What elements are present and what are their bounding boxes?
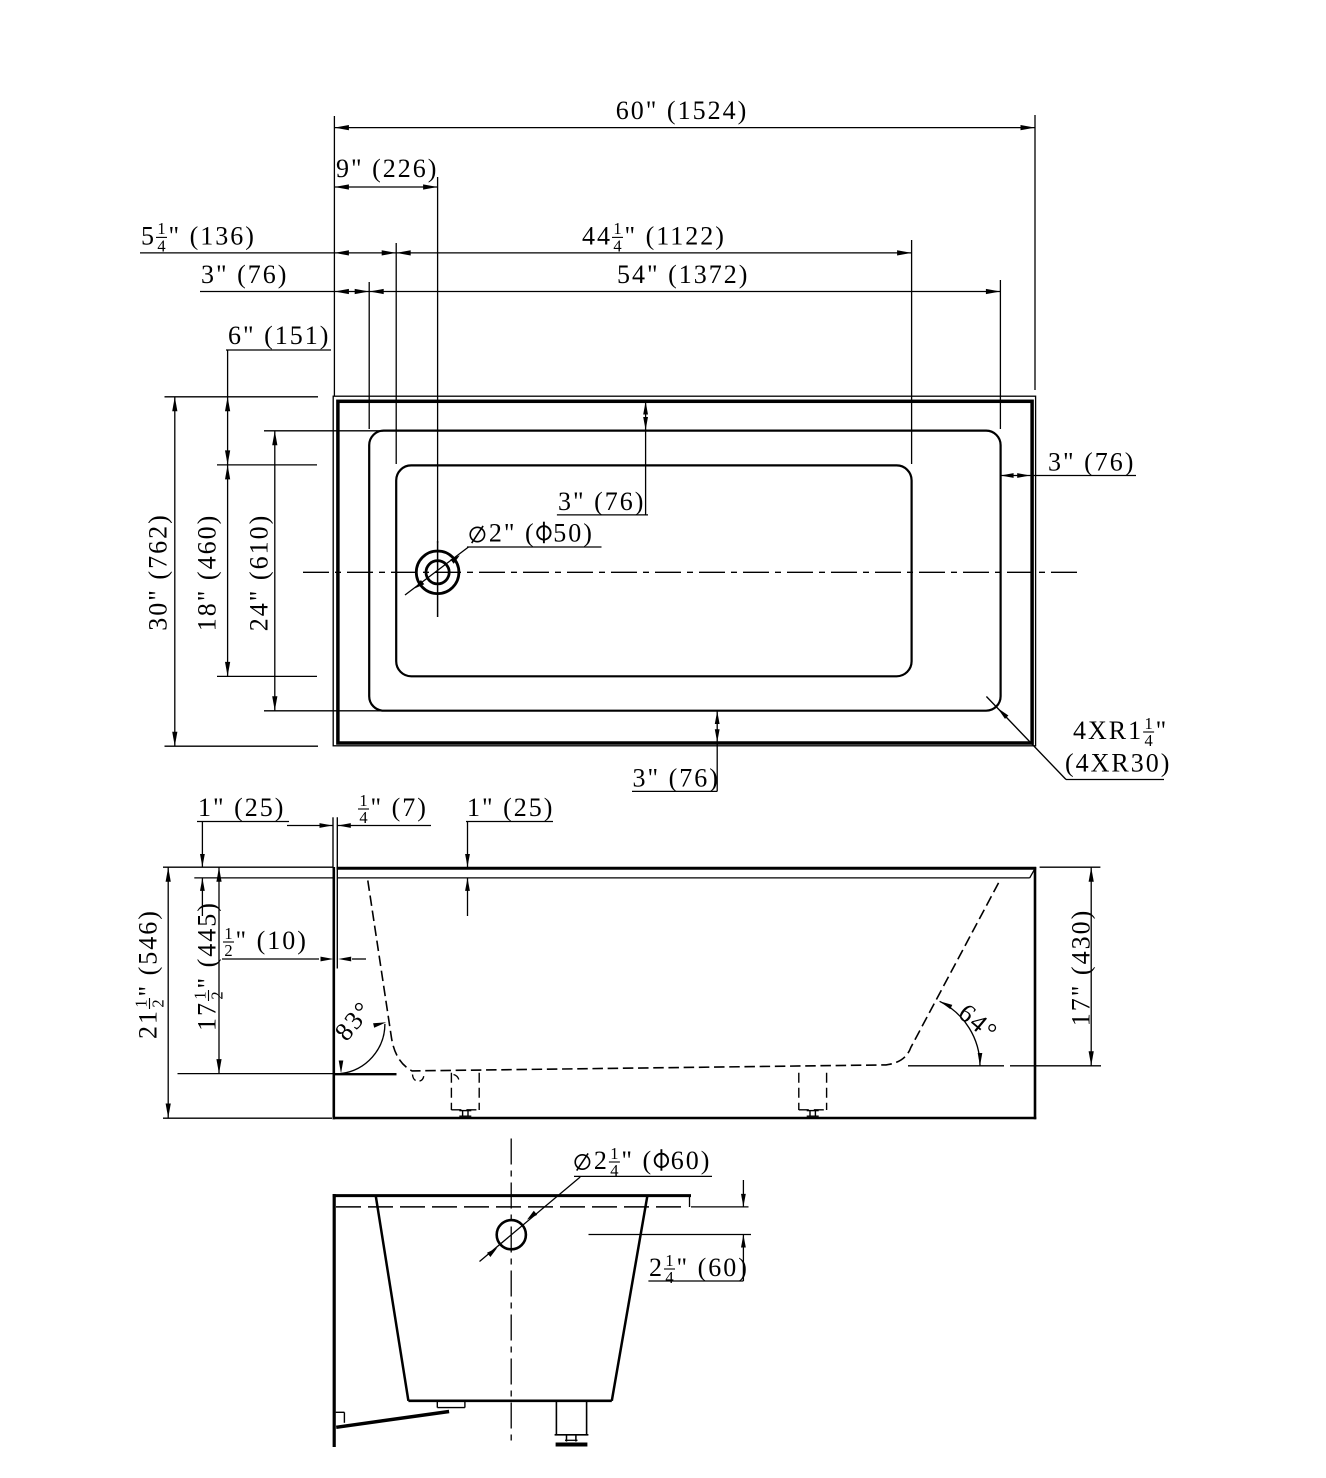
front view: deck top extension line left [163, 866, 333, 868]
svg-text:" (445): " (445) [193, 901, 222, 988]
front view: hidden drain hub dashed arc [413, 1075, 425, 1082]
end view: diagonal support thick [336, 1412, 449, 1428]
extension line basin left edge [395, 243, 397, 464]
svg-text:1: 1 [613, 219, 621, 238]
svg-text:1: 1 [224, 924, 232, 943]
dimension 5-1/4 inch (136) and 44-1/4 inch (1122) shared dim line [140, 252, 912, 254]
extension line basin right edge [911, 240, 913, 464]
svg-text:" (136): " (136) [169, 221, 256, 250]
svg-text:" (7): " (7) [371, 793, 428, 822]
svg-text:1: 1 [665, 1251, 673, 1270]
dimension 3 inch (76) top middle [645, 401, 647, 515]
dimension 1 inch (25) right [466, 821, 553, 823]
svg-text:6" (151): 6" (151) [228, 321, 330, 350]
dimension 6 inch (151) [226, 349, 331, 351]
end view: foot base plate thick [556, 1443, 588, 1447]
svg-text:2: 2 [149, 999, 168, 1007]
drain diameter leader and label dia 2 inch (phi 50) [405, 547, 469, 595]
end view: foot cylinder [555, 1401, 557, 1435]
front view: hidden tub profile dashed [368, 880, 1000, 1071]
top view: basin rounded rectangle [396, 465, 911, 676]
svg-text:24" (610): 24" (610) [245, 514, 274, 631]
angle 64 degrees arc and base line [908, 1065, 1004, 1067]
svg-text:1: 1 [190, 991, 209, 999]
dimension 3 inch (76) right side [1000, 475, 1136, 477]
top view: tub outer deck rectangle thin outer line [333, 396, 1035, 746]
svg-text:2: 2 [594, 1146, 609, 1175]
front view: bottom edge thick [333, 1117, 1037, 1120]
dimension 1 inch (25) left [197, 821, 289, 823]
svg-text:" (10): " (10) [236, 926, 308, 955]
svg-text:3" (76): 3" (76) [633, 764, 720, 793]
end view: foot stem [566, 1435, 568, 1442]
svg-text:3" (76): 3" (76) [558, 487, 645, 516]
extension line tub top edge left [165, 396, 319, 398]
svg-text:44: 44 [582, 221, 612, 250]
top view: rim rounded rectangle [369, 431, 1000, 711]
svg-text:4: 4 [665, 1268, 673, 1287]
svg-text:5: 5 [141, 221, 156, 250]
svg-text:60): 60) [671, 1146, 712, 1175]
svg-text:9" (226): 9" (226) [336, 154, 438, 183]
svg-text:2: 2 [224, 941, 232, 960]
svg-text:54" (1372): 54" (1372) [617, 260, 749, 289]
svg-text:" (546): " (546) [134, 909, 163, 996]
end view: wall notch [336, 1411, 345, 1413]
end view: deck top line [333, 1194, 691, 1197]
extension line rim left edge [368, 282, 370, 429]
svg-text:4: 4 [359, 808, 367, 827]
svg-text:17: 17 [193, 1001, 222, 1031]
svg-text:2" (: 2" ( [489, 519, 536, 548]
front view: small fillet arc at foot left [454, 1075, 459, 1080]
extension line rim top edge left [264, 430, 383, 432]
end view: wall vertical thick line [333, 1194, 336, 1447]
end view: bracket under tub [436, 1401, 438, 1408]
svg-text:" (1122): " (1122) [625, 221, 726, 250]
dimension 18 inch (460) vertical arrows [225, 465, 230, 480]
extension line tub bottom edge left [165, 745, 319, 747]
front view: deck right chamfer [1030, 869, 1035, 878]
front view: foot bolt [459, 1110, 471, 1112]
svg-text:1: 1 [157, 219, 165, 238]
svg-text:4: 4 [1144, 731, 1152, 750]
dimension 3 inch (76) bottom middle [716, 711, 718, 791]
top view: drain inner circle [426, 561, 449, 584]
end view: drain leader and label dia 2-1/4 inch (phi 60) [480, 1177, 581, 1262]
dimension 3 inch (76) left and 54 inch (1372) shared dim line [200, 291, 1000, 293]
top view: tub deck rectangle thick inner line [338, 401, 1032, 743]
front view: deck ledge line [338, 877, 1030, 879]
extension line rim bottom edge left [264, 710, 383, 712]
dimension 1/4 inch (7) [287, 825, 333, 827]
dimension 60 inch (1524) [334, 127, 1035, 129]
svg-text:4: 4 [157, 237, 165, 256]
svg-text:3" (76): 3" (76) [1048, 448, 1135, 477]
svg-text:1: 1 [610, 1144, 618, 1163]
svg-text:4: 4 [613, 237, 621, 256]
end view: ledge extension solid [691, 1206, 749, 1208]
svg-text:1: 1 [131, 999, 150, 1007]
svg-text:2: 2 [649, 1253, 664, 1282]
svg-text:(4XR30): (4XR30) [1065, 749, 1171, 778]
svg-text:3" (76): 3" (76) [201, 260, 288, 289]
front view: deck top edge thick line [337, 867, 1037, 870]
front view: hidden foot dashed outline [798, 1073, 800, 1110]
corner radius note 4XR1-1/4 inch (4XR30) [986, 697, 1066, 780]
front view: left edge thick [332, 867, 335, 1119]
front view: wall flange lip inner line [336, 817, 338, 968]
dimension 1/2 inch (10) [222, 958, 319, 960]
front view: floor extension line [178, 1073, 335, 1075]
svg-text:30" (762): 30" (762) [144, 513, 173, 630]
extension line tub left edge [333, 116, 335, 396]
front view: wall flange lip outer line [332, 817, 334, 867]
extension line tub right edge [1034, 115, 1036, 390]
front view: solid floor line [334, 1073, 397, 1075]
svg-text:2: 2 [208, 991, 227, 999]
dimension 2-1/4 inch (60) drain depth [589, 1234, 752, 1236]
extension line rim right edge [999, 280, 1001, 429]
svg-text:50): 50) [553, 519, 594, 548]
end view: tub left wall [376, 1197, 409, 1401]
front view: foot bolt [807, 1110, 819, 1112]
top view: horizontal centerline [303, 571, 1080, 573]
svg-text:1" (25): 1" (25) [467, 793, 554, 822]
front view: hidden foot dashed outline [450, 1073, 452, 1110]
end view: vertical centerline [510, 1139, 512, 1446]
end view: drain circle [497, 1220, 526, 1249]
end view: tub right wall [612, 1197, 647, 1401]
svg-text:4: 4 [610, 1161, 618, 1180]
svg-text:" (: " ( [621, 1146, 653, 1175]
svg-text:17" (430): 17" (430) [1067, 909, 1096, 1026]
top view: drain outer circle [416, 551, 459, 594]
extension line basin top edge left [217, 464, 317, 466]
front view: right edge thick [1034, 867, 1037, 1119]
svg-text:60" (1524): 60" (1524) [616, 96, 748, 125]
svg-text:4XR1: 4XR1 [1073, 716, 1143, 745]
dimension 30 inch (762) vertical [174, 397, 176, 746]
svg-text:18" (460): 18" (460) [193, 514, 222, 631]
extension line drain center vertical [437, 177, 439, 543]
svg-text:1" (25): 1" (25) [198, 793, 285, 822]
end view: hidden ledge dashed line [336, 1206, 686, 1208]
end view: deck right step [689, 1197, 691, 1207]
dimension 17 inch (430) [1040, 866, 1101, 868]
svg-text:1: 1 [359, 791, 367, 810]
svg-text:1: 1 [1144, 714, 1152, 733]
dimension 24 inch (610) vertical [274, 431, 276, 711]
svg-text:21: 21 [134, 1009, 163, 1039]
dimension 9 inch (226) [334, 186, 437, 188]
end view: tub bottom [408, 1400, 611, 1403]
dimension 17-1/2 inch (445) [218, 867, 220, 1073]
dimension 21-1/2 inch (546) [167, 867, 169, 1118]
svg-text:" (60): " (60) [677, 1253, 749, 1282]
angle 83 degrees arc [341, 1024, 385, 1074]
extension line basin bottom edge left [217, 675, 317, 677]
svg-text:": " [1156, 716, 1169, 745]
top view: drain vertical centerline tick [437, 541, 439, 617]
front view: ledge extension line left [194, 877, 332, 879]
